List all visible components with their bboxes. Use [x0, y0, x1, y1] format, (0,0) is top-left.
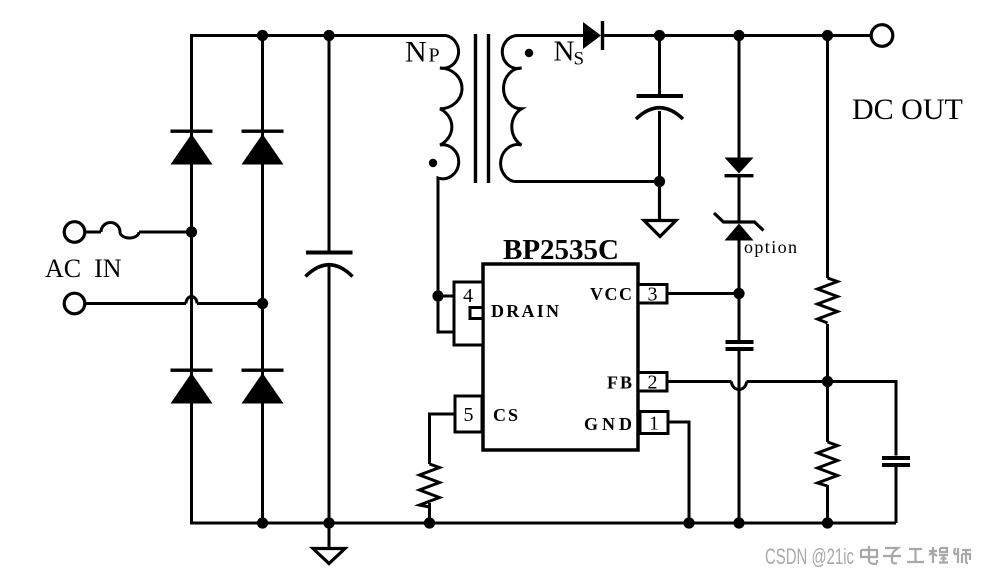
svg-text:N: N	[405, 36, 427, 69]
svg-text:DRAIN: DRAIN	[491, 301, 559, 321]
svg-text:GND: GND	[584, 414, 632, 434]
svg-text:P: P	[429, 45, 440, 67]
svg-text:5: 5	[464, 404, 474, 426]
svg-text:2: 2	[648, 372, 658, 394]
svg-text:4: 4	[463, 285, 473, 307]
svg-text:option: option	[744, 237, 797, 257]
svg-text:BP2535C: BP2535C	[503, 234, 619, 266]
svg-text:DC OUT: DC OUT	[852, 93, 963, 126]
svg-text:N: N	[554, 36, 575, 68]
svg-text:CSDN @21ic: CSDN @21ic	[765, 544, 854, 569]
svg-text:1: 1	[649, 413, 659, 435]
svg-text:CS: CS	[493, 405, 518, 425]
svg-text:AC IN: AC IN	[45, 254, 122, 283]
svg-text:S: S	[574, 49, 585, 70]
svg-text:3: 3	[648, 284, 658, 306]
svg-text:VCC: VCC	[590, 284, 632, 304]
svg-text:FB: FB	[607, 373, 632, 393]
